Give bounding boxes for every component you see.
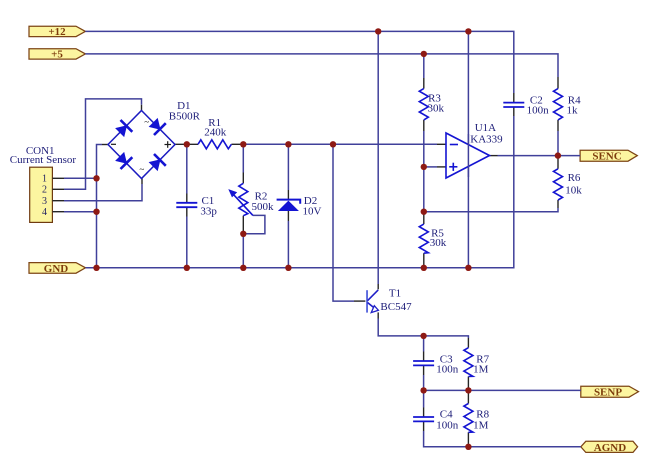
- transistor T1: [366, 290, 378, 313]
- R6 pins: [557, 158, 559, 169]
- svg-text:1k: 1k: [567, 104, 579, 116]
- wire pin2 to bridge top: [64, 99, 142, 189]
- capacitor C2: [503, 103, 524, 107]
- bridge diode top-right: [150, 119, 166, 135]
- svg-text:R6: R6: [568, 172, 581, 184]
- svg-text:100n: 100n: [527, 104, 550, 116]
- D2 pins: [287, 190, 289, 200]
- wire output rail: [498, 155, 581, 157]
- junction GND/CON1: [93, 265, 99, 271]
- C2 pins: [513, 93, 515, 102]
- wire plus input: [424, 166, 437, 168]
- resistor R7: [464, 348, 473, 377]
- junction pin1: [93, 175, 99, 181]
- junction SENP/R7: [465, 387, 471, 393]
- R2 pins: [242, 173, 244, 184]
- wire +12 rail: [85, 31, 513, 93]
- junction AGND/R8: [465, 444, 471, 450]
- R3 pins: [423, 78, 425, 89]
- svg-text:B500R: B500R: [169, 111, 201, 123]
- svg-text:~: ~: [144, 117, 149, 127]
- C4 pins: [423, 408, 425, 417]
- op-amp power line inside: [467, 134, 469, 177]
- wire R2 top drop: [242, 144, 244, 172]
- svg-text:+5: +5: [51, 49, 63, 61]
- svg-text:30k: 30k: [428, 103, 445, 115]
- junction R2 wiper: [240, 231, 246, 237]
- svg-text:U1A: U1A: [475, 122, 496, 134]
- wire CON1 pin4 stub net: [64, 211, 97, 213]
- wire R3-R5 link: [423, 131, 425, 213]
- svg-text:BC547: BC547: [380, 301, 412, 313]
- wire +5 rail: [85, 54, 558, 77]
- svg-text:1: 1: [42, 174, 47, 185]
- svg-text:500k: 500k: [252, 201, 275, 213]
- svg-text:KA339: KA339: [470, 134, 503, 146]
- wire GND rail: [86, 116, 514, 268]
- bridge diode top-left: [116, 120, 132, 136]
- bridge diode bottom-right: [150, 154, 166, 170]
- port SENC: [580, 150, 637, 162]
- wire feedback R6: [424, 208, 558, 212]
- C1 pins: [186, 194, 188, 203]
- pin leads (gray): [102, 77, 558, 444]
- svg-text:~: ~: [139, 164, 144, 174]
- junction main/C1: [184, 141, 190, 147]
- junction GND/R2: [240, 265, 246, 271]
- svg-text:10V: 10V: [303, 206, 322, 218]
- svg-text:+12: +12: [48, 26, 66, 38]
- svg-text:4: 4: [42, 207, 47, 218]
- wire T1 emitter path: [378, 319, 468, 339]
- wire T1 base drop: [333, 144, 354, 301]
- CON1 pin stubs: [52, 178, 64, 211]
- wire R2 wiper step: [243, 215, 265, 233]
- T1 pins: [354, 300, 365, 302]
- port +5: [29, 49, 85, 61]
- junction emitter/C3: [420, 333, 426, 339]
- svg-text:240k: 240k: [204, 127, 227, 139]
- bridge diode bottom-left: [116, 153, 132, 169]
- wire AGND rail: [424, 431, 581, 447]
- op-amp input pins: [437, 143, 446, 145]
- svg-text:1M: 1M: [473, 364, 489, 376]
- R2 wiper arrow: [234, 195, 253, 216]
- wire C1 bottom to GND: [186, 217, 188, 268]
- wire C1 drop: [186, 144, 188, 193]
- junction GND/D2: [285, 265, 291, 271]
- wire T1 collector riser: [377, 31, 379, 284]
- svg-text:30k: 30k: [430, 237, 447, 249]
- R7 pins: [467, 338, 469, 348]
- svg-text:GND: GND: [44, 263, 69, 275]
- R5 pins: [423, 213, 425, 224]
- svg-text:Current Sensor: Current Sensor: [10, 154, 77, 166]
- wire C3 drop: [423, 336, 425, 352]
- capacitor C1: [176, 203, 197, 207]
- potentiometer R2: [239, 183, 248, 215]
- resistor R4: [554, 89, 563, 120]
- wire D2 top drop: [287, 144, 289, 190]
- svg-text:3: 3: [42, 196, 47, 207]
- junction +12/T1 collector: [375, 28, 381, 34]
- wire R4 bottom: [557, 131, 559, 158]
- port +12: [29, 26, 85, 38]
- junction +5/R3: [421, 51, 427, 57]
- wire R7 bottom tie: [467, 388, 469, 390]
- wire C4 top link: [423, 390, 425, 407]
- svg-text:AGND: AGND: [594, 442, 626, 454]
- svg-text:SENP: SENP: [594, 387, 622, 399]
- junction GND/R5: [421, 265, 427, 271]
- resistor R5: [419, 224, 428, 253]
- zener D2: [277, 200, 301, 211]
- C3 pins: [423, 352, 425, 361]
- port GND: [29, 263, 86, 275]
- capacitor C3: [413, 361, 434, 365]
- junction output node: [555, 152, 561, 158]
- svg-text:10k: 10k: [565, 184, 582, 196]
- junction pin4: [93, 209, 99, 215]
- bridge corner pins: [102, 144, 108, 146]
- R1 pins: [175, 143, 198, 145]
- R4 pins: [557, 77, 559, 89]
- port AGND: [581, 441, 638, 454]
- wire R3 top drop: [423, 54, 425, 78]
- op-amp U1A: [446, 133, 490, 178]
- junction main/R2: [240, 141, 246, 147]
- wire R8 bottom tie: [467, 444, 469, 447]
- svg-text:100n: 100n: [436, 419, 459, 431]
- resistor R6: [554, 169, 563, 200]
- capacitor C4: [413, 417, 434, 421]
- wire C3 to SENP: [423, 375, 425, 390]
- junction main/D2: [285, 141, 291, 147]
- junction main/T1 base: [330, 141, 336, 147]
- wire pin3 to bridge bottom: [64, 184, 142, 201]
- junction feedback: [421, 209, 427, 215]
- svg-text:1M: 1M: [473, 419, 489, 431]
- svg-text:SENC: SENC: [592, 151, 621, 163]
- resistor R8: [464, 404, 473, 433]
- junction SENP/C3: [420, 387, 426, 393]
- svg-text:2: 2: [42, 185, 47, 196]
- junction GND/op-amp: [465, 265, 471, 271]
- junction +12/op-amp power: [465, 28, 471, 34]
- svg-text:33p: 33p: [200, 205, 217, 217]
- wire CON1 vertical to GND: [97, 145, 103, 268]
- wire SENP rail: [424, 389, 581, 391]
- svg-text:T1: T1: [389, 288, 401, 300]
- wire R2 bottom to GND: [242, 234, 244, 268]
- wire D2 bottom to GND: [287, 221, 289, 268]
- port SENP: [581, 386, 639, 398]
- bridge marks: [111, 141, 171, 148]
- connector CON1: [10, 145, 77, 223]
- wire main rail: [243, 143, 437, 145]
- bridge D1 diamond: [108, 111, 175, 179]
- resistor R1: [198, 140, 231, 149]
- op-amp output pin: [490, 155, 498, 157]
- wire CON1 pin1 stub net: [64, 177, 97, 179]
- resistor R3: [419, 89, 428, 120]
- wire op-amp power line: [467, 31, 469, 267]
- junction plus input: [421, 164, 427, 170]
- R8 pins: [467, 392, 469, 404]
- svg-text:100n: 100n: [436, 364, 459, 376]
- junction GND/C1: [184, 265, 190, 271]
